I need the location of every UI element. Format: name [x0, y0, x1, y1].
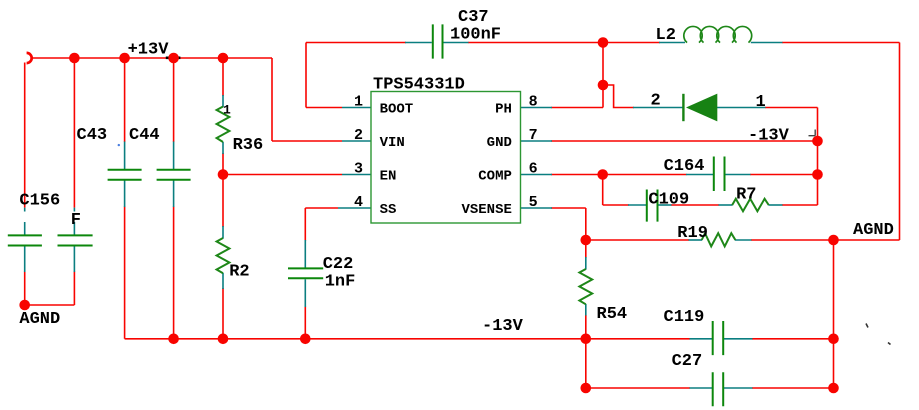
junction PH riser jog: [598, 80, 609, 91]
junction top net at PH riser: [598, 37, 609, 48]
junction -13V rail at C22: [300, 334, 311, 345]
wire: R2 top from EN junction: [222, 175, 224, 228]
svg-text:TPS54331D: TPS54331D: [373, 76, 465, 95]
capacitor C156 plates: [8, 235, 42, 245]
lead: R36 top: [222, 95, 224, 107]
junction -13V rail at C119 right: [828, 334, 839, 345]
svg-text:C37: C37: [458, 8, 489, 27]
capacitor C22 plates: [288, 268, 323, 278]
pin stub: U1 pin 6 COMP: [520, 174, 552, 176]
svg-text:C119: C119: [664, 308, 705, 327]
wire: C27 row right segment: [752, 387, 834, 389]
wire: right edge vertical (AGND net): [899, 43, 901, 241]
lead: R54 bottom: [585, 304, 587, 316]
svg-text:1: 1: [756, 93, 766, 112]
wire: GND pin row (-13V net): [551, 140, 818, 142]
wire: R54 top lead: [585, 240, 587, 258]
capacitor C44 plates: [157, 170, 191, 180]
svg-text:C44: C44: [129, 126, 160, 145]
wire: VSENSE drop to R19 row: [585, 208, 587, 241]
svg-text:AGND: AGND: [853, 221, 894, 240]
svg-text:3: 3: [354, 161, 363, 178]
diode D1 triangle: [686, 94, 717, 122]
lead: R7 left: [719, 204, 733, 206]
junction C27 row right: [828, 383, 839, 394]
junction on +13V rail at F branch: [69, 53, 80, 64]
wire: between C109 and R7: [671, 204, 719, 206]
wire: C43 branch lower: [124, 207, 126, 339]
junction -13V vertical at COMP row: [812, 169, 823, 180]
wire: AGND link F-branch to C156-branch: [25, 304, 75, 306]
lead: C22 bottom: [304, 279, 306, 307]
lead: diode pin 2: [633, 107, 683, 109]
wire: PH pin row: [551, 107, 603, 109]
svg-text:EN: EN: [380, 168, 397, 184]
svg-text:+13V: +13V: [128, 41, 170, 60]
lead: R19 left: [689, 239, 703, 241]
wire: C44 branch lower: [173, 207, 175, 339]
lead: F top: [73, 208, 75, 235]
junction -13V rail at C44: [168, 334, 179, 345]
wire: BOOT pin row: [306, 107, 342, 109]
junction -13V rail at R54: [581, 334, 592, 345]
svg-text:2: 2: [354, 127, 363, 144]
lead: C44 top: [173, 142, 175, 170]
lead: R2 top: [222, 226, 224, 239]
pin stub: U1 pin 4 SS: [338, 207, 372, 209]
svg-text:F: F: [71, 211, 81, 230]
pin stub: U1 pin 3 EN: [342, 174, 372, 176]
wire: C156 branch lower to AGND: [24, 272, 26, 306]
junction on +13V rail at C43 branch: [119, 53, 130, 64]
wire: C164 right to -13V vertical: [750, 174, 818, 176]
junction AGND left node: [19, 300, 30, 311]
wire: R36 bottom to EN junction: [222, 153, 224, 175]
wire: top net segment junction to L2 left: [603, 42, 660, 44]
wire: +13V drop to VIN row: [271, 58, 273, 141]
wire: R7 right to -13V vertical: [782, 204, 818, 206]
svg-text:VIN: VIN: [380, 135, 405, 151]
pin stub: U1 pin 8 PH: [520, 107, 552, 109]
lead: diode pin 1: [717, 107, 766, 109]
svg-text:1nF: 1nF: [325, 273, 356, 292]
lead: C109 left: [628, 204, 646, 206]
junction -13V rail at R2: [218, 334, 229, 345]
lead: L2 right: [751, 42, 783, 44]
wire: -13V bottom rail: [125, 338, 690, 340]
wire: SS drop to C22: [304, 208, 306, 241]
lead: C37 left: [405, 42, 432, 44]
resistor R2 body: [217, 238, 230, 273]
wire: COMP pin row to C164: [551, 174, 687, 176]
junction COMP row at C109 drop: [597, 169, 608, 180]
wire: COMP drop to C109/R7 row: [602, 175, 604, 206]
wire entry arc at +13V rail left end: [27, 53, 32, 63]
wire: R36 top lead from +13V rail: [222, 58, 224, 96]
svg-text:C164: C164: [664, 157, 705, 176]
lead: R7 right: [769, 204, 783, 206]
artifact mark near -13V label: [809, 130, 816, 136]
lead: C27 right: [724, 387, 753, 389]
wire: +13V rail: [31, 57, 273, 59]
lead: C164 left: [686, 174, 713, 176]
lead: R36 bottom: [222, 142, 224, 154]
net label tick under +13V: [166, 56, 181, 59]
svg-text:PH: PH: [495, 101, 512, 117]
wire: VSENSE pin row: [551, 207, 586, 209]
capacitor C164 plates: [714, 157, 725, 192]
junction -13V vertical at GND row: [812, 136, 823, 147]
svg-text:R54: R54: [597, 305, 628, 324]
svg-text:100nF: 100nF: [450, 26, 501, 45]
wire: F branch upper: [73, 58, 75, 208]
wire: C44 branch upper: [173, 58, 175, 142]
wire: R54 bottom lead: [585, 315, 587, 339]
wire: BOOT riser at x306: [305, 43, 307, 108]
svg-text:R36: R36: [233, 136, 264, 155]
svg-text:AGND: AGND: [19, 310, 60, 329]
wire: top net segment C37 right to junction at x603: [468, 42, 603, 44]
wire: -13V right vertical: [817, 108, 819, 206]
wire: VIN pin row: [272, 140, 342, 142]
lead: C27 left: [690, 387, 714, 389]
wire: PH jog to diode: [603, 85, 634, 108]
wire: AGND vertical x833.5: [833, 240, 835, 388]
svg-text:C43: C43: [77, 126, 108, 145]
lead: C22 top: [304, 240, 306, 268]
svg-text:5: 5: [529, 194, 538, 211]
lead: L2 left: [659, 42, 685, 44]
svg-text:R2: R2: [229, 262, 249, 281]
lead: R19 right: [735, 239, 752, 241]
svg-text:C27: C27: [672, 352, 703, 371]
wire: C109 row left segment: [603, 204, 629, 206]
wire: PH node riser to top junction: [602, 43, 604, 108]
wire: C22 bottom to -13V rail: [304, 307, 306, 339]
resistor R7 body: [732, 199, 769, 211]
wire: EN pin row from R36/R2 junction: [223, 174, 342, 176]
capacitor C109 plates: [647, 190, 658, 222]
junction EN row at R36/R2: [218, 169, 229, 180]
junction C27 row left: [581, 383, 592, 394]
wire: SS pin row: [305, 207, 338, 209]
lead: C37 right: [444, 42, 469, 44]
junction R19 row right AGND: [828, 235, 839, 246]
wire: C156 branch upper: [24, 63, 26, 208]
capacitor C37 plates: [433, 24, 443, 58]
svg-text:L2: L2: [656, 26, 676, 45]
artifact blue speck near C43: [118, 144, 120, 146]
svg-text:SS: SS: [380, 202, 397, 218]
resistor R19 body: [702, 233, 736, 246]
svg-text:8: 8: [529, 94, 538, 111]
wire: R19 row right segment to AGND junction: [751, 239, 834, 241]
op-amp U1 TPS54331D box: [371, 92, 521, 224]
lead: C44 bottom: [173, 181, 175, 208]
resistor R54 body: [579, 269, 592, 304]
svg-text:BOOT: BOOT: [380, 101, 414, 117]
svg-text:R19: R19: [677, 224, 708, 243]
pin stub: U1 pin 1 BOOT: [342, 107, 372, 109]
lead: C109 right: [659, 204, 672, 206]
svg-text:COMP: COMP: [478, 168, 512, 184]
wire: R2 bottom to -13V rail: [222, 288, 224, 339]
capacitor C119 plates: [713, 321, 724, 355]
svg-text:C109: C109: [648, 190, 689, 209]
pin stub: U1 pin 7 GND: [520, 140, 552, 142]
lead: C43 bottom: [124, 181, 126, 208]
resistor R36 body: [217, 107, 230, 143]
capacitor C43 plates: [108, 170, 142, 180]
pin stub: U1 pin 2 VIN: [342, 140, 372, 142]
wire: drop from -13V rail to C27 row: [585, 339, 587, 388]
wire: top net segment from BOOT riser to C37 left plate: [306, 42, 406, 44]
lead: C164 right: [726, 174, 751, 176]
lead: R54 top: [585, 257, 587, 270]
svg-text:-13V: -13V: [748, 126, 790, 145]
svg-text:7: 7: [529, 127, 538, 144]
svg-text:2: 2: [651, 92, 661, 111]
wire: F branch lower: [73, 272, 75, 306]
lead: F bottom: [73, 247, 75, 273]
svg-text:R7: R7: [736, 186, 756, 205]
wire: diode pin1 to right corner: [765, 107, 818, 109]
wire: top net segment L2 right to top-right corner: [782, 42, 900, 44]
lead: C119 left: [690, 338, 714, 340]
svg-text:-13V: -13V: [482, 317, 524, 336]
pin stub: U1 pin 5 VSENSE: [520, 207, 552, 209]
wire: AGND row from right corner to junction: [834, 239, 900, 241]
junction on +13V rail at R36 branch: [218, 53, 229, 64]
capacitor F plates: [58, 235, 93, 245]
capacitor C27 plates: [713, 372, 724, 406]
wire: C43 branch upper: [124, 58, 126, 142]
junction R19 row left: [581, 235, 592, 246]
wire: C27 row left segment: [586, 387, 690, 389]
svg-text:VSENSE: VSENSE: [461, 202, 511, 218]
svg-text:6: 6: [529, 161, 538, 178]
lead: C43 top: [124, 142, 126, 170]
svg-text:4: 4: [354, 194, 363, 211]
wire: -13V bottom rail right of C119: [752, 338, 834, 340]
svg-text:1: 1: [354, 94, 363, 111]
wire: R19 row left segment: [586, 239, 689, 241]
svg-text:1: 1: [223, 102, 231, 117]
svg-text:GND: GND: [487, 135, 512, 151]
inductor L2 coil: [684, 26, 752, 42]
lead: C156 top: [24, 208, 26, 235]
artifact specks bottom right: [866, 324, 891, 345]
svg-text:C156: C156: [19, 191, 60, 210]
diode D1 cathode bar: [682, 94, 684, 121]
svg-text:C22: C22: [323, 255, 354, 274]
junction on +13V rail at C44 branch: [168, 53, 179, 64]
lead: C119 right: [724, 338, 753, 340]
lead: R2 bottom: [222, 273, 224, 289]
lead: C156 bottom: [24, 247, 26, 273]
